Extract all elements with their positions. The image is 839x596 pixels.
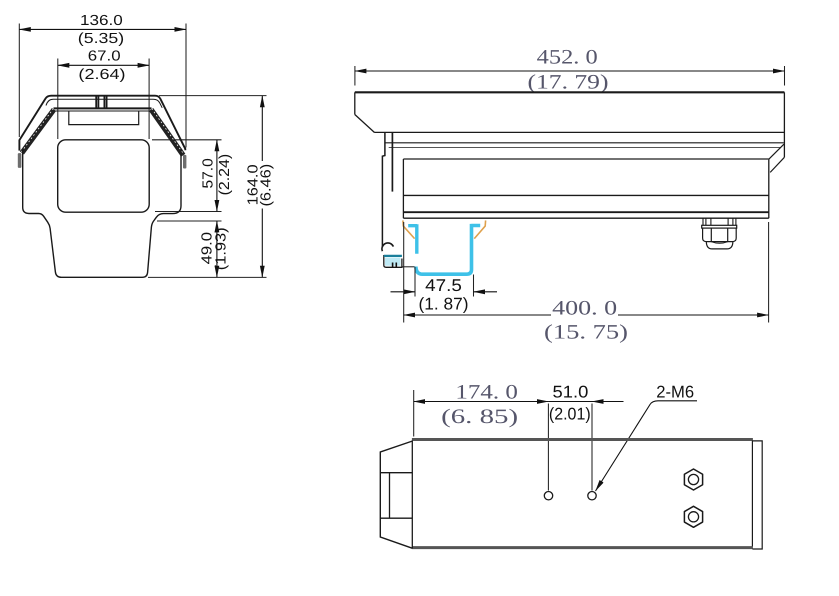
hinge rod bbox=[391, 133, 393, 192]
dimension 136.0 ext line right bbox=[185, 24, 187, 148]
dimension 174.0 ext left bbox=[413, 390, 415, 437]
front bottom ext line bbox=[148, 276, 267, 278]
svg-text:452. 0: 452. 0 bbox=[537, 47, 598, 69]
camera body side: left edge bbox=[402, 159, 404, 218]
svg-text:47.5: 47.5 bbox=[425, 276, 462, 295]
dimension 452.0 line bbox=[355, 70, 785, 72]
bottom left end cap bbox=[380, 441, 412, 548]
dimension 67.0 ext line left bbox=[57, 59, 59, 140]
camera body side: bottom edge bbox=[403, 217, 768, 219]
hinge tab bbox=[382, 133, 385, 248]
shield clamp bar right bbox=[183, 155, 186, 169]
mount channel right wall and bottom (cyan) bbox=[416, 224, 480, 274]
dimension 51.0 line bbox=[548, 401, 592, 403]
dimension 57.0 top ext line bbox=[152, 139, 222, 141]
svg-text:2-M6: 2-M6 bbox=[656, 382, 694, 401]
camera body side: mid line bbox=[403, 194, 768, 196]
sunshield side: right wedge diagonal 1 bbox=[769, 144, 784, 159]
camera body side: right edge bbox=[768, 159, 770, 218]
hole center line 1 bbox=[547, 404, 549, 491]
svg-text:136.0: 136.0 bbox=[80, 13, 123, 29]
mounting hole 1 bbox=[544, 492, 552, 500]
svg-text:(2.64): (2.64) bbox=[78, 67, 125, 83]
sunshield side: left chamfer bbox=[355, 115, 375, 133]
cable gland hex nut bbox=[703, 228, 737, 242]
svg-text:(2.01): (2.01) bbox=[549, 404, 591, 423]
cable gland flange bbox=[702, 225, 737, 228]
svg-text:(1. 87): (1. 87) bbox=[419, 295, 469, 314]
sunshield side: bottom edge bbox=[375, 131, 785, 133]
bracket foot marks bbox=[392, 263, 394, 268]
cable gland neck bbox=[703, 218, 736, 225]
sunshield side: right wedge diagonal 2 bbox=[770, 157, 784, 172]
bottom right end cap bbox=[752, 441, 762, 549]
dimension 47.5 ext left bbox=[414, 267, 416, 297]
block under shield bbox=[69, 111, 139, 124]
svg-text:(1.93): (1.93) bbox=[213, 227, 229, 270]
dimension 400.0 line right part bbox=[618, 314, 769, 316]
sunshield inner top line bbox=[46, 99, 162, 108]
dimension 136.0 line bbox=[19, 28, 186, 30]
dimension 51.0 arrow bbox=[592, 401, 624, 403]
bracket foot box bbox=[384, 255, 402, 267]
dimension 452.0 ext left bbox=[354, 66, 356, 86]
svg-text:(6. 85): (6. 85) bbox=[441, 406, 518, 428]
dimension 47.5 ext right bbox=[473, 275, 475, 297]
dimension 452.0 ext right bbox=[784, 66, 786, 86]
bottom left joint line bbox=[411, 441, 413, 549]
dimension 400.0 ext right bbox=[768, 222, 770, 323]
bottom body right edge bbox=[751, 441, 753, 547]
dimension 57.0 bottom ext line bbox=[155, 211, 222, 213]
svg-text:51.0: 51.0 bbox=[553, 383, 589, 402]
funnel guide orange right bbox=[474, 220, 485, 238]
funnel guide orange left bbox=[403, 220, 415, 238]
sunshield hatched band right bbox=[151, 110, 183, 156]
bottom body top edge bbox=[412, 438, 753, 441]
svg-text:(5.35): (5.35) bbox=[78, 31, 124, 47]
bottom body bottom edge bbox=[412, 546, 753, 549]
svg-text:(17. 79): (17. 79) bbox=[528, 72, 609, 94]
dimension 400.0 ext left bbox=[403, 222, 405, 323]
dimension 67.0 line bbox=[58, 64, 149, 66]
dimension 164.0 line bbox=[261, 96, 263, 161]
mount channel left wall (cyan) bbox=[408, 224, 417, 254]
sunshield side: top edge bbox=[355, 91, 785, 93]
svg-text:67.0: 67.0 bbox=[88, 49, 121, 65]
svg-text:(15. 75): (15. 75) bbox=[544, 322, 628, 344]
hex nut bottom bbox=[684, 506, 702, 527]
svg-text:(6.46): (6.46) bbox=[259, 164, 275, 207]
sunshield side: left edge bbox=[354, 92, 356, 114]
camera body side: top edge bbox=[403, 158, 768, 160]
sunshield side: right edge bbox=[783, 92, 785, 157]
dimension 164.0 top ext line bbox=[159, 95, 267, 97]
housing body outline bbox=[23, 150, 181, 278]
bracket foot teal band bbox=[384, 255, 402, 257]
sunshield inner band bottom line bbox=[54, 110, 152, 112]
cable gland dome bbox=[706, 242, 733, 249]
sunshield inner band top line bbox=[54, 107, 152, 109]
sunshield hatched band left bbox=[22, 110, 54, 153]
hole center line 2 bbox=[591, 404, 593, 491]
shield clamp bar left bbox=[18, 153, 22, 168]
sunshield outer outline bbox=[19, 96, 185, 151]
sunshield side: flange line bbox=[385, 142, 784, 144]
dimension 49.0 line bbox=[216, 221, 218, 277]
dimension 174.0 line bbox=[414, 401, 549, 403]
dimension 47.5 arrow left bbox=[391, 291, 416, 293]
bottom left inner rect bbox=[380, 473, 412, 519]
dimension 57.0 line bbox=[216, 140, 218, 212]
svg-text:400. 0: 400. 0 bbox=[552, 298, 617, 320]
camera body side: lower line bbox=[403, 211, 768, 213]
shield top clip bbox=[96, 96, 106, 109]
bracket foot cyan fill bbox=[385, 258, 401, 266]
hex nut top bbox=[684, 469, 702, 490]
mounting hole 2 bbox=[588, 492, 596, 500]
dimension 136.0 ext line left bbox=[18, 24, 20, 138]
svg-text:(2.24): (2.24) bbox=[217, 154, 233, 196]
sunshield side: lower thin line bbox=[389, 147, 781, 149]
dimension 49.0 top ext line bbox=[157, 220, 222, 222]
front window bbox=[58, 140, 150, 212]
leader 2-M6 to hole bbox=[596, 401, 698, 491]
svg-text:174. 0: 174. 0 bbox=[455, 382, 518, 404]
svg-text:57.0: 57.0 bbox=[201, 158, 217, 188]
leader from foot to ext bbox=[402, 266, 415, 268]
dimension 67.0 ext line right bbox=[148, 59, 150, 140]
dimension 47.5 arrow right bbox=[474, 291, 498, 293]
dimension 400.0 line left part bbox=[404, 314, 551, 316]
bracket hook arc bbox=[382, 243, 393, 251]
